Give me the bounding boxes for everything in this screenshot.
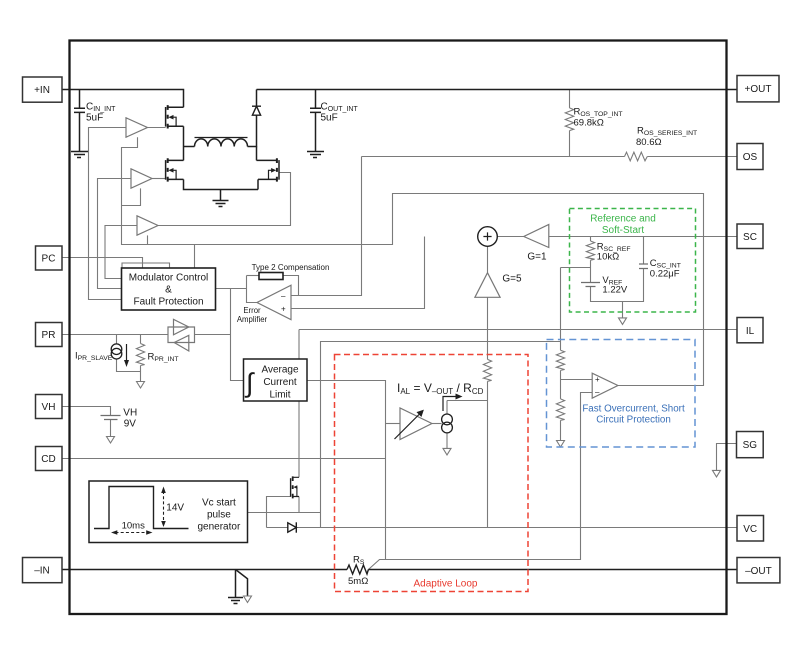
svg-text:–: – [281, 292, 286, 301]
svg-text:Fast Overcurrent, Short: Fast Overcurrent, Short [582, 404, 685, 415]
svg-text:–IN: –IN [34, 566, 50, 577]
svg-text:Current: Current [263, 377, 297, 388]
svg-text:Fault Protection: Fault Protection [133, 297, 203, 308]
svg-text:80.6Ω: 80.6Ω [636, 137, 662, 148]
svg-text:pulse: pulse [207, 510, 231, 521]
svg-text:Reference and: Reference and [590, 214, 656, 225]
svg-text:VH: VH [42, 402, 56, 413]
svg-text:SC: SC [743, 232, 757, 243]
svg-text:PC: PC [42, 254, 56, 265]
svg-text:14V: 14V [166, 503, 184, 514]
svg-text:Modulator Control: Modulator Control [129, 273, 208, 284]
svg-text:Type 2 Compensation: Type 2 Compensation [252, 263, 330, 272]
svg-text:VC: VC [743, 524, 757, 535]
svg-text:10ms: 10ms [122, 520, 145, 531]
svg-text:Limit: Limit [269, 390, 290, 401]
svg-text:+: + [595, 375, 600, 384]
svg-text:69.8kΩ: 69.8kΩ [574, 118, 604, 129]
svg-text:Circuit Protection: Circuit Protection [596, 415, 671, 426]
svg-text:OS: OS [743, 152, 758, 163]
svg-text:Error: Error [243, 306, 261, 315]
svg-text:generator: generator [197, 522, 240, 533]
svg-text:CD: CD [41, 454, 55, 465]
svg-text:1.22V: 1.22V [602, 284, 627, 295]
svg-text:Soft-Start: Soft-Start [602, 225, 644, 236]
svg-text:Amplifier: Amplifier [237, 315, 268, 324]
svg-text:∫: ∫ [244, 368, 255, 398]
svg-text:PR: PR [42, 330, 56, 341]
svg-text:IL: IL [746, 326, 755, 337]
svg-text:–OUT: –OUT [745, 566, 772, 577]
svg-text:5uF: 5uF [321, 113, 338, 124]
svg-text:10kΩ: 10kΩ [597, 251, 619, 262]
svg-text:VH: VH [123, 407, 137, 418]
svg-text:9V: 9V [124, 418, 137, 429]
svg-text:Vc start: Vc start [202, 498, 236, 509]
svg-text:5uF: 5uF [86, 113, 103, 124]
svg-text:Average: Average [261, 365, 299, 376]
svg-text:G=5: G=5 [502, 274, 522, 285]
svg-text:0.22μF: 0.22μF [650, 268, 680, 279]
svg-text:&: & [165, 285, 172, 296]
svg-text:SG: SG [743, 440, 758, 451]
svg-text:5mΩ: 5mΩ [348, 576, 368, 587]
svg-text:+: + [281, 305, 286, 314]
svg-text:–: – [595, 388, 600, 397]
svg-text:+IN: +IN [34, 85, 50, 96]
svg-text:Adaptive Loop: Adaptive Loop [414, 579, 478, 590]
svg-text:+OUT: +OUT [745, 84, 772, 95]
svg-text:G=1: G=1 [527, 251, 547, 262]
